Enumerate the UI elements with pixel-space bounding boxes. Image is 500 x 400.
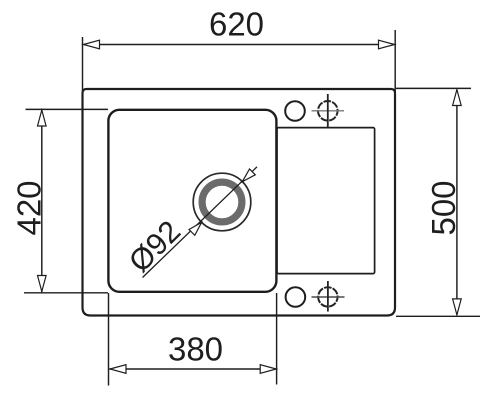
- svg-text:500: 500: [425, 180, 462, 235]
- svg-text:620: 620: [209, 6, 264, 43]
- svg-text:420: 420: [10, 180, 47, 235]
- svg-text:380: 380: [168, 331, 223, 368]
